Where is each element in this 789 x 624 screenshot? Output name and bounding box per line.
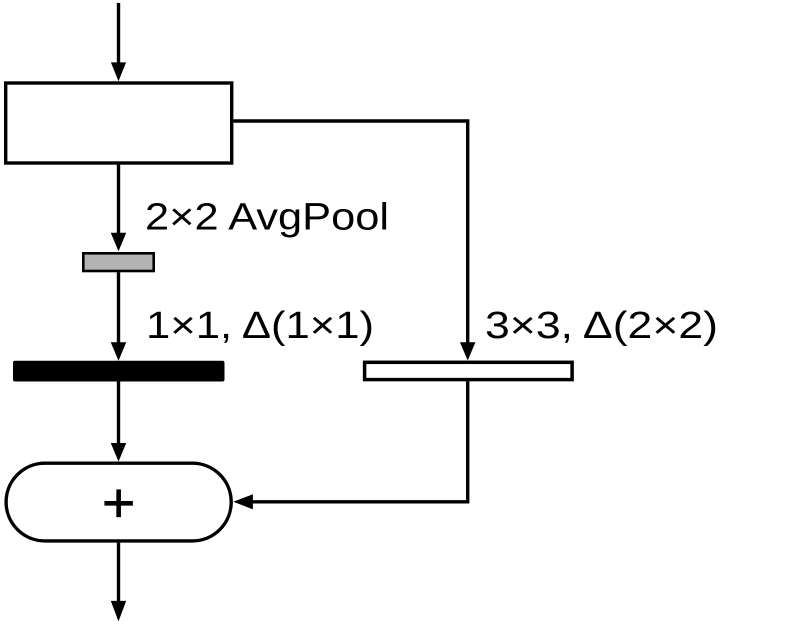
wire avgpool to 1x1 conv	[111, 272, 127, 360]
avgpool box (gray)	[83, 253, 153, 271]
wire rect bottom to avgpool	[111, 163, 127, 251]
svg-text:2×2 AvgPool: 2×2 AvgPool	[145, 197, 389, 239]
3x3 conv bar (white)	[365, 362, 572, 379]
plus symbol	[104, 489, 132, 517]
wire 1x1 conv to add	[111, 382, 127, 462]
skip wire: rect right edge to 3x3 conv	[233, 121, 475, 361]
output arrow (bottom)	[111, 543, 126, 622]
feature map box (top rectangle)	[6, 83, 232, 163]
svg-text:1×1, Δ(1×1): 1×1, Δ(1×1)	[146, 305, 374, 347]
input arrow (top)	[111, 3, 126, 81]
svg-text:3×3, Δ(2×2): 3×3, Δ(2×2)	[485, 305, 718, 347]
1x1 conv bar (black)	[13, 361, 225, 382]
skip wire: 3x3 conv to add node	[233, 381, 467, 509]
add node (stadium)	[6, 463, 231, 541]
